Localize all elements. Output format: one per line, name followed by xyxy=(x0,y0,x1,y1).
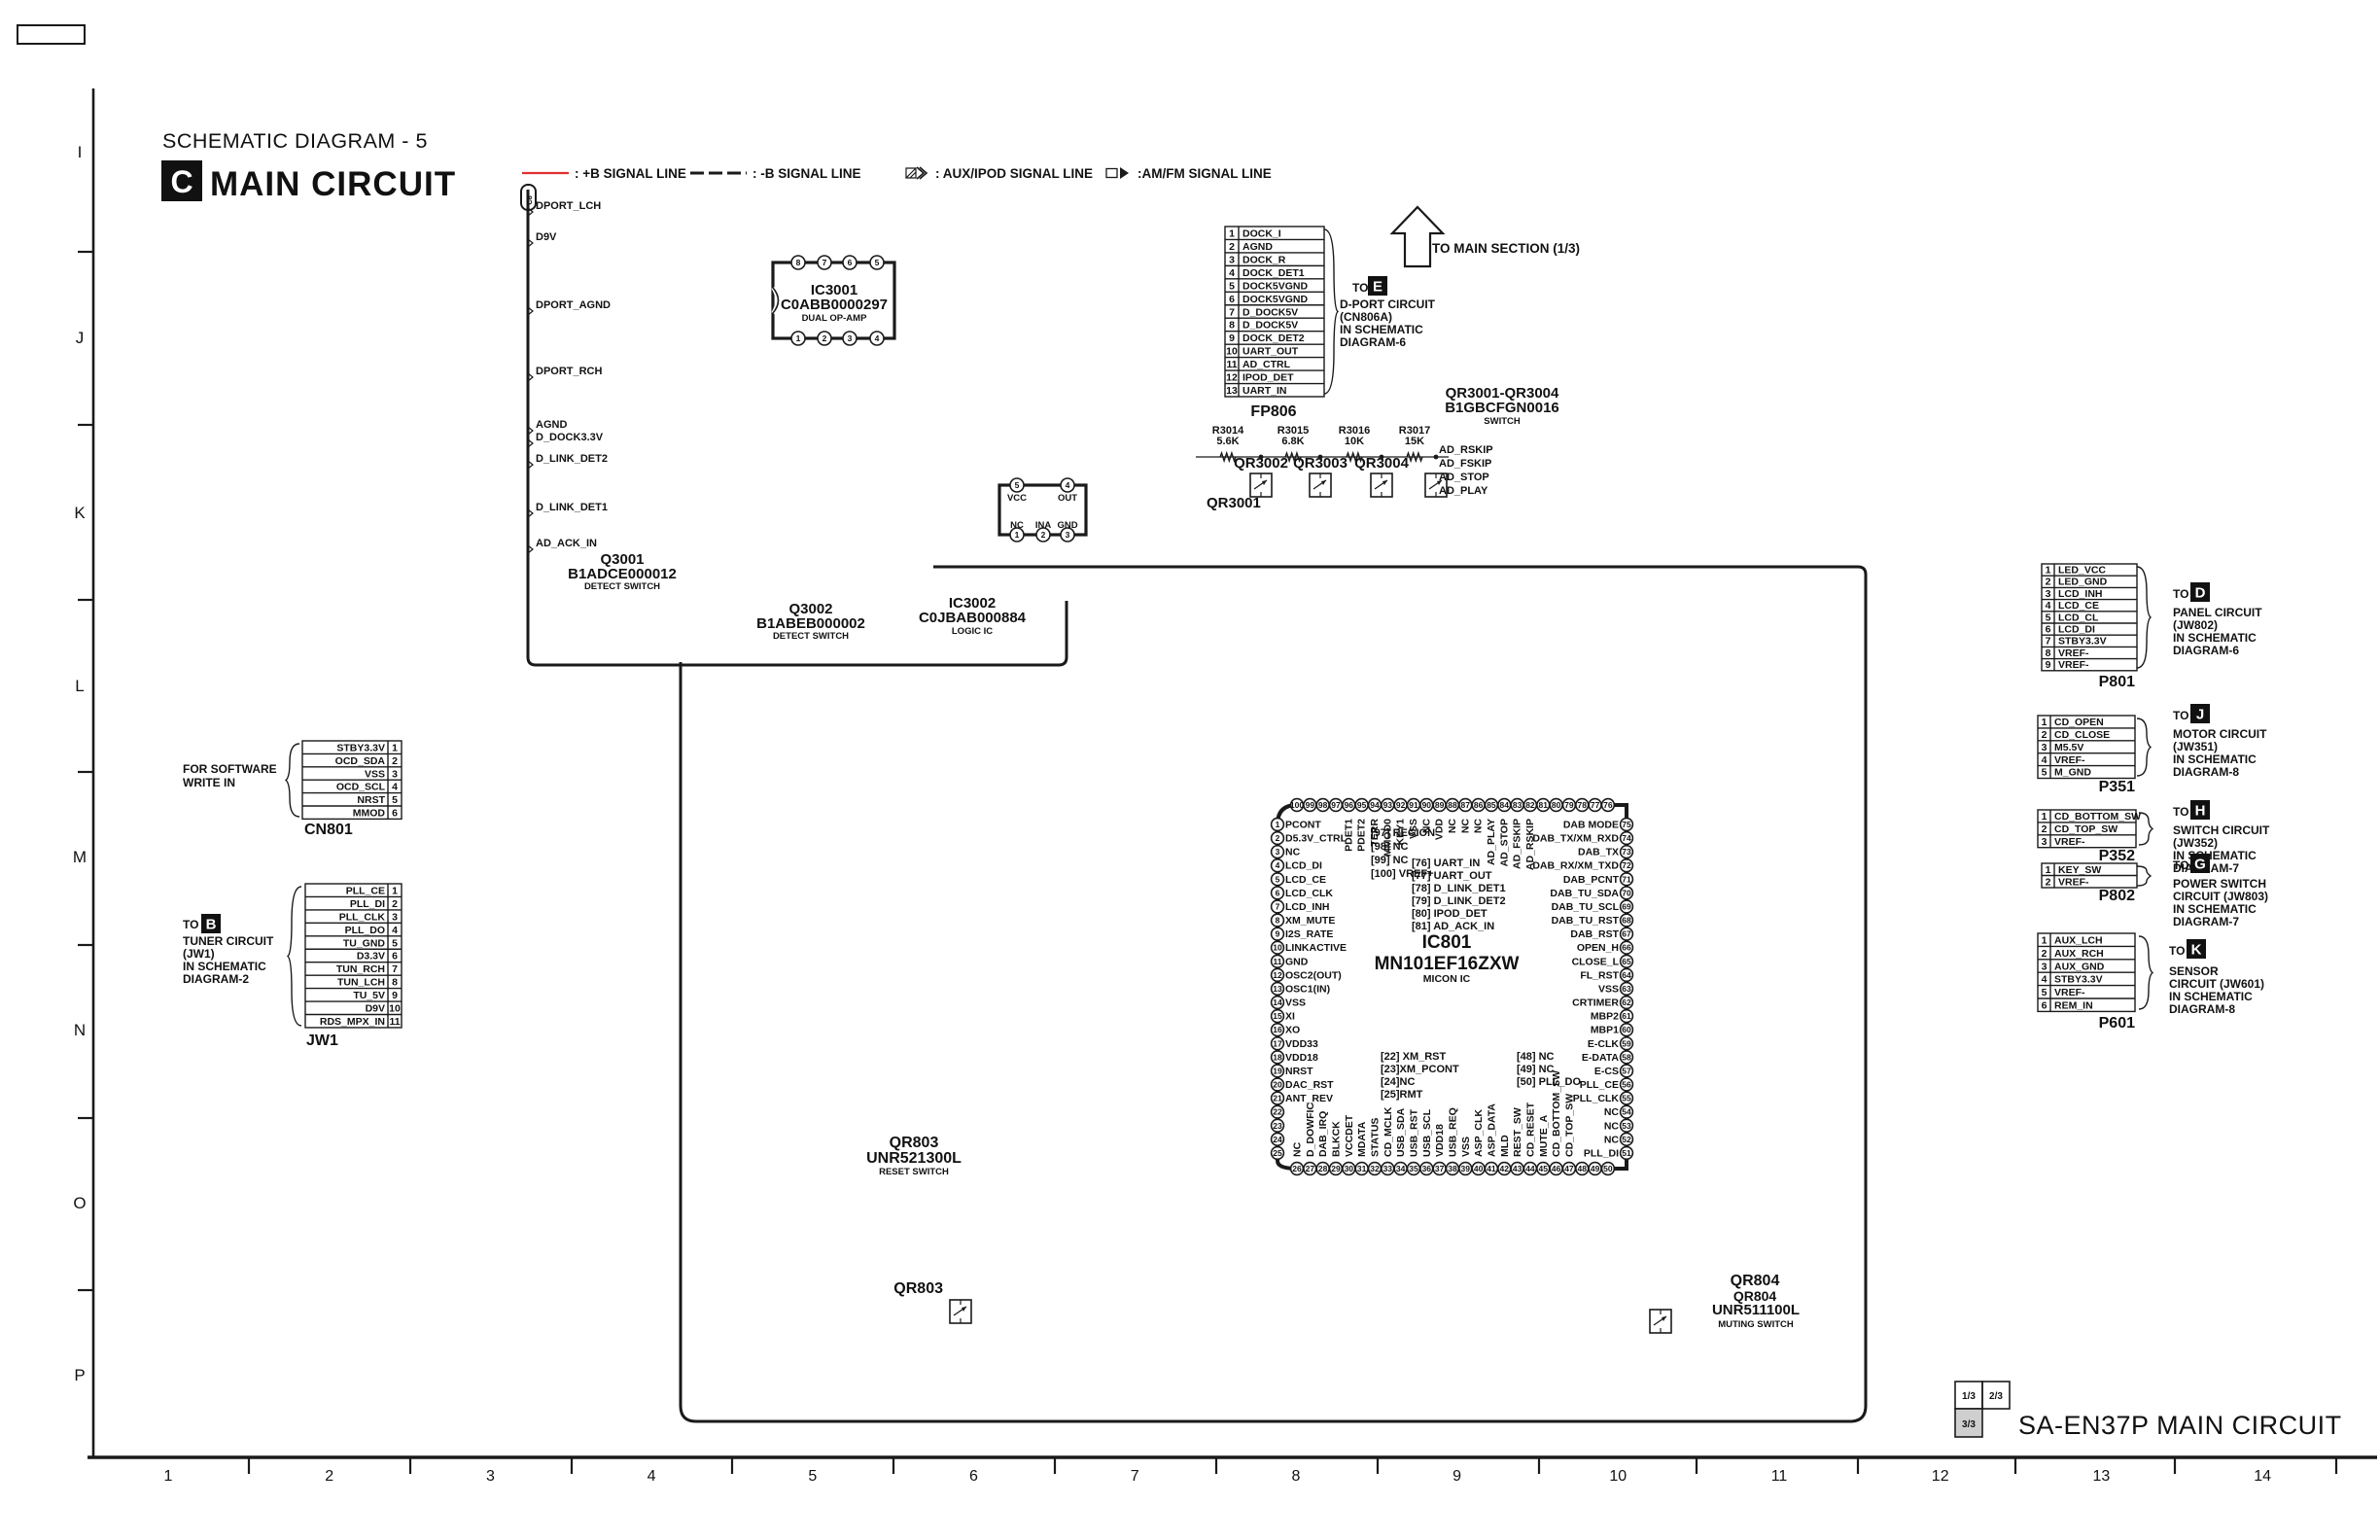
svg-text:FL_RST: FL_RST xyxy=(1580,969,1619,981)
svg-text:75: 75 xyxy=(1622,820,1631,829)
svg-text:78: 78 xyxy=(1578,800,1588,810)
svg-text:AGND: AGND xyxy=(536,419,567,431)
svg-text:98: 98 xyxy=(1318,800,1328,810)
svg-text:PCONT: PCONT xyxy=(1285,820,1321,831)
svg-text:25: 25 xyxy=(1273,1148,1282,1158)
svg-text:14: 14 xyxy=(1273,997,1282,1007)
svg-text:D-PORT CIRCUIT: D-PORT CIRCUIT xyxy=(1340,297,1436,311)
svg-text:4: 4 xyxy=(1066,480,1070,490)
svg-text:OSC1(IN): OSC1(IN) xyxy=(1285,983,1330,995)
svg-text:4: 4 xyxy=(647,1468,656,1485)
IC801 bracket pin list uart xyxy=(1412,857,1506,932)
svg-text:PLL_CE: PLL_CE xyxy=(346,885,385,896)
svg-text:: +B SIGNAL LINE: : +B SIGNAL LINE xyxy=(575,166,686,181)
svg-text:: -B SIGNAL LINE: : -B SIGNAL LINE xyxy=(752,166,861,181)
svg-text:[79] D_LINK_DET2: [79] D_LINK_DET2 xyxy=(1412,895,1506,907)
svg-text::AM/FM SIGNAL LINE: :AM/FM SIGNAL LINE xyxy=(1137,166,1272,181)
IC801 right pins 75-51 xyxy=(1532,819,1632,1160)
note to H switch circuit xyxy=(2173,800,2270,875)
svg-text:81: 81 xyxy=(1539,800,1549,810)
svg-text:99: 99 xyxy=(1306,800,1315,810)
svg-text:TUNER CIRCUIT: TUNER CIRCUIT xyxy=(183,934,274,948)
svg-text:21: 21 xyxy=(1273,1094,1282,1103)
svg-text:1: 1 xyxy=(796,333,801,343)
svg-text:E-CS: E-CS xyxy=(1594,1066,1619,1077)
svg-text:3: 3 xyxy=(2042,742,2047,753)
svg-text:45: 45 xyxy=(1539,1164,1549,1173)
svg-text:1: 1 xyxy=(1015,530,1020,540)
svg-text:[97] REGION: [97] REGION xyxy=(1371,827,1435,839)
svg-text:100: 100 xyxy=(1290,800,1304,810)
svg-text:D_DOWFIC: D_DOWFIC xyxy=(1305,1102,1316,1157)
svg-text:B1ADCE000012: B1ADCE000012 xyxy=(568,566,677,582)
page index boxes xyxy=(1955,1382,2010,1437)
svg-text:IC801: IC801 xyxy=(1422,932,1472,953)
svg-text:2: 2 xyxy=(1276,833,1280,843)
node AD_ACK_IN xyxy=(528,538,597,553)
svg-text:L: L xyxy=(75,677,84,695)
resistor R3014 xyxy=(1212,425,1244,461)
svg-text:19: 19 xyxy=(1273,1066,1282,1075)
svg-text:8: 8 xyxy=(1229,320,1235,332)
svg-text:14: 14 xyxy=(2254,1468,2271,1485)
svg-text:3: 3 xyxy=(392,911,398,923)
svg-text:[49] NC: [49] NC xyxy=(1517,1064,1555,1075)
svg-text:3/3: 3/3 xyxy=(1962,1419,1976,1430)
svg-text:STBY3.3V: STBY3.3V xyxy=(336,742,385,753)
svg-text:DOCK_DET1: DOCK_DET1 xyxy=(1242,267,1305,279)
svg-text:MLD: MLD xyxy=(1499,1135,1511,1157)
svg-text:XI: XI xyxy=(1285,1011,1295,1023)
svg-text:52: 52 xyxy=(1622,1135,1631,1144)
svg-text:15: 15 xyxy=(1273,1011,1282,1021)
svg-text:D_LINK_DET2: D_LINK_DET2 xyxy=(536,453,608,465)
svg-text:44: 44 xyxy=(1525,1164,1535,1173)
IC801 bottom pins 26-50 xyxy=(1291,1070,1615,1175)
svg-text:TU_5V: TU_5V xyxy=(353,990,385,1001)
svg-text:VSS: VSS xyxy=(1285,997,1306,1009)
svg-text:K: K xyxy=(2191,942,2202,959)
svg-text:LINKACTIVE: LINKACTIVE xyxy=(1285,942,1347,954)
node D_DOCK3.3V xyxy=(528,432,604,447)
svg-text:RDS_MPX_IN: RDS_MPX_IN xyxy=(320,1016,385,1028)
IC801 left pins 1-25 xyxy=(1272,819,1347,1160)
svg-text:2/3: 2/3 xyxy=(1989,1391,2003,1402)
note to K sensor circuit xyxy=(2169,939,2264,1016)
svg-text:TUN_RCH: TUN_RCH xyxy=(336,963,385,975)
svg-text:5: 5 xyxy=(1229,280,1235,292)
svg-text:DAB_IRQ: DAB_IRQ xyxy=(1317,1111,1329,1157)
svg-text:MDATA: MDATA xyxy=(1356,1121,1368,1157)
svg-text:NC: NC xyxy=(1010,520,1024,531)
wire switch row xyxy=(1196,455,1449,460)
svg-text:1: 1 xyxy=(2042,811,2047,822)
svg-text:SWITCH CIRCUIT: SWITCH CIRCUIT xyxy=(2173,823,2270,837)
svg-text:94: 94 xyxy=(1370,800,1380,810)
svg-text:87: 87 xyxy=(1461,800,1471,810)
svg-text:OSC2(OUT): OSC2(OUT) xyxy=(1285,969,1342,981)
svg-text:3: 3 xyxy=(2042,836,2047,848)
svg-text:53: 53 xyxy=(1622,1121,1631,1131)
svg-text:TO: TO xyxy=(2173,858,2188,872)
note to G power switch circuit xyxy=(2173,854,2268,928)
svg-text:86: 86 xyxy=(1474,800,1484,810)
svg-text:PLL_CLK: PLL_CLK xyxy=(339,911,386,923)
svg-text:5: 5 xyxy=(2046,612,2051,623)
label QR804 block xyxy=(1731,1273,1780,1304)
svg-text:AGND: AGND xyxy=(1242,241,1273,253)
svg-text:LCD_INH: LCD_INH xyxy=(2058,588,2103,600)
svg-text:LED_GND: LED_GND xyxy=(2058,577,2108,588)
svg-text:VCC: VCC xyxy=(1007,493,1027,504)
svg-text:NC: NC xyxy=(1604,1134,1620,1145)
svg-text:P351: P351 xyxy=(2099,779,2135,795)
svg-text:2: 2 xyxy=(1041,530,1046,540)
svg-text:CD_MCLK: CD_MCLK xyxy=(1382,1106,1394,1157)
svg-text:MUTING SWITCH: MUTING SWITCH xyxy=(1718,1319,1794,1330)
svg-text:1: 1 xyxy=(2046,864,2051,876)
svg-text:UNR511100L: UNR511100L xyxy=(1712,1302,1800,1318)
svg-text:DIAGRAM-7: DIAGRAM-7 xyxy=(2173,915,2239,928)
label IC3002 xyxy=(919,595,1027,637)
svg-text:33: 33 xyxy=(1383,1164,1393,1173)
svg-text:DAB_RX/XM_TXD: DAB_RX/XM_TXD xyxy=(1532,860,1619,872)
svg-text:GND: GND xyxy=(1285,956,1309,967)
connector C8 oval xyxy=(521,185,536,210)
svg-text:C: C xyxy=(170,164,192,199)
svg-text:10: 10 xyxy=(389,1003,401,1015)
svg-text:GND: GND xyxy=(1057,520,1077,531)
svg-text:[81] AD_ACK_IN: [81] AD_ACK_IN xyxy=(1412,921,1494,932)
svg-text:5: 5 xyxy=(808,1468,817,1485)
svg-text:VREF-: VREF- xyxy=(2054,754,2085,766)
svg-text:3: 3 xyxy=(1066,530,1070,540)
svg-text:D9V: D9V xyxy=(536,231,557,243)
svg-text:72: 72 xyxy=(1622,860,1631,870)
svg-text:CIRCUIT (JW803): CIRCUIT (JW803) xyxy=(2173,890,2268,903)
svg-text:(JW352): (JW352) xyxy=(2173,836,2218,850)
svg-text:24: 24 xyxy=(1273,1135,1282,1144)
svg-text:LCD_CLK: LCD_CLK xyxy=(1285,888,1333,899)
svg-text:CRTIMER: CRTIMER xyxy=(1572,997,1619,1009)
svg-text:(JW351): (JW351) xyxy=(2173,740,2218,753)
svg-text:UART_IN: UART_IN xyxy=(1242,385,1287,397)
svg-text:CD_TOP_SW: CD_TOP_SW xyxy=(1563,1094,1575,1157)
svg-text:TO: TO xyxy=(1352,281,1368,295)
svg-text:TO: TO xyxy=(183,918,198,931)
svg-text:85: 85 xyxy=(1487,800,1496,810)
svg-text:MMOD: MMOD xyxy=(353,807,386,819)
svg-text:D_DOCK5V: D_DOCK5V xyxy=(1242,306,1298,318)
switch QR3002 xyxy=(1234,455,1288,497)
svg-text:QR803: QR803 xyxy=(890,1135,939,1151)
label IC801 xyxy=(1375,932,1520,985)
svg-text:STATUS: STATUS xyxy=(1369,1118,1381,1157)
detect-switch block outline xyxy=(528,190,1067,665)
svg-text:6: 6 xyxy=(2042,999,2047,1011)
connector P352 xyxy=(2038,810,2152,864)
svg-text:[80] IPOD_DET: [80] IPOD_DET xyxy=(1412,908,1487,920)
svg-text:DOCK_I: DOCK_I xyxy=(1242,227,1281,239)
svg-text:39: 39 xyxy=(1461,1164,1471,1173)
svg-text:3: 3 xyxy=(2046,588,2051,600)
svg-text:DOCK5VGND: DOCK5VGND xyxy=(1242,280,1309,292)
svg-text:TO MAIN SECTION (1/3): TO MAIN SECTION (1/3) xyxy=(1432,241,1580,256)
svg-text:CIRCUIT (JW601): CIRCUIT (JW601) xyxy=(2169,977,2264,991)
node D9V xyxy=(528,231,557,247)
svg-text:VREF-: VREF- xyxy=(2054,987,2085,998)
svg-text:DPORT_LCH: DPORT_LCH xyxy=(536,200,601,212)
svg-text:10: 10 xyxy=(1273,943,1282,953)
svg-text:DAC_RST: DAC_RST xyxy=(1285,1079,1334,1091)
svg-text:83: 83 xyxy=(1513,800,1522,810)
svg-text:AD_CTRL: AD_CTRL xyxy=(1242,359,1291,370)
svg-text:P801: P801 xyxy=(2099,674,2135,690)
svg-text:26: 26 xyxy=(1292,1164,1302,1173)
svg-text:9: 9 xyxy=(1276,929,1280,939)
svg-text:MUTE_A: MUTE_A xyxy=(1538,1114,1550,1157)
svg-text:6: 6 xyxy=(1276,888,1280,897)
svg-text:D3.3V: D3.3V xyxy=(357,951,385,962)
svg-text:QR804: QR804 xyxy=(1731,1273,1780,1289)
svg-text:61: 61 xyxy=(1622,1011,1631,1021)
svg-text:NC: NC xyxy=(1604,1106,1620,1118)
svg-text:D5.3V_CTRL: D5.3V_CTRL xyxy=(1285,833,1347,845)
svg-text:7: 7 xyxy=(2046,636,2051,647)
svg-text:48: 48 xyxy=(1578,1164,1588,1173)
svg-text:DIAGRAM-8: DIAGRAM-8 xyxy=(2173,765,2239,779)
connector JW1 xyxy=(288,884,402,1049)
svg-text:7: 7 xyxy=(392,963,398,975)
svg-text:NC: NC xyxy=(1447,819,1458,834)
svg-text:IPOD_DET: IPOD_DET xyxy=(1242,372,1294,384)
svg-text:5: 5 xyxy=(1276,874,1280,884)
svg-text:AUX_LCH: AUX_LCH xyxy=(2054,934,2103,946)
svg-text:OCD_SCL: OCD_SCL xyxy=(336,782,386,793)
svg-text:40: 40 xyxy=(1474,1164,1484,1173)
svg-text:QR803: QR803 xyxy=(893,1280,943,1297)
svg-text:47: 47 xyxy=(1564,1164,1574,1173)
svg-text:AD_RSKIP: AD_RSKIP xyxy=(1524,819,1536,870)
svg-text:VREF-: VREF- xyxy=(2058,647,2089,659)
svg-text:DIAGRAM-8: DIAGRAM-8 xyxy=(2169,1002,2235,1016)
svg-text:I: I xyxy=(78,143,83,161)
op-amp IC3001 xyxy=(773,256,894,345)
connector CN801 xyxy=(286,741,402,838)
svg-text:OUT: OUT xyxy=(1058,493,1077,504)
switch QR803 xyxy=(893,1280,971,1323)
svg-text:SWITCH: SWITCH xyxy=(1484,416,1521,427)
svg-text:UNR521300L: UNR521300L xyxy=(866,1150,962,1167)
svg-text:38: 38 xyxy=(1448,1164,1457,1173)
svg-text:LCD_CL: LCD_CL xyxy=(2058,612,2099,623)
svg-text:PDET2: PDET2 xyxy=(1356,819,1368,852)
svg-text:RESET SWITCH: RESET SWITCH xyxy=(879,1167,949,1177)
svg-text:5: 5 xyxy=(875,258,880,267)
svg-text:2: 2 xyxy=(2046,577,2051,588)
svg-text:2: 2 xyxy=(325,1468,333,1485)
svg-text:2: 2 xyxy=(2042,729,2047,741)
svg-text:PLL_DI: PLL_DI xyxy=(350,898,385,910)
svg-text:C0ABB0000297: C0ABB0000297 xyxy=(781,297,888,313)
svg-text:AUX_GND: AUX_GND xyxy=(2054,961,2105,972)
svg-text:DAB_RST: DAB_RST xyxy=(1570,928,1619,940)
node AD_RSKIP xyxy=(1439,444,1493,456)
svg-text:3: 3 xyxy=(2042,961,2047,972)
svg-text:MOTOR CIRCUIT: MOTOR CIRCUIT xyxy=(2173,727,2267,741)
svg-text:INA: INA xyxy=(1035,520,1052,531)
svg-text:77: 77 xyxy=(1591,800,1600,810)
svg-text:QR3001: QR3001 xyxy=(1207,495,1261,511)
svg-text:[76] UART_IN: [76] UART_IN xyxy=(1412,857,1480,869)
label QR804 part xyxy=(1712,1302,1800,1330)
svg-text:: AUX/IPOD SIGNAL LINE: : AUX/IPOD SIGNAL LINE xyxy=(935,166,1093,181)
note QR3001-QR3004 switch xyxy=(1445,385,1559,427)
svg-text:AD_STOP: AD_STOP xyxy=(1498,819,1510,866)
svg-text:NRST: NRST xyxy=(1285,1066,1313,1077)
title main circuit xyxy=(210,165,456,203)
svg-text:C0JBAB000884: C0JBAB000884 xyxy=(919,610,1027,626)
svg-text:2: 2 xyxy=(392,898,398,910)
svg-text:50: 50 xyxy=(1603,1164,1613,1173)
svg-text:2: 2 xyxy=(392,755,398,767)
svg-text:MICON IC: MICON IC xyxy=(1423,973,1471,985)
svg-text:[25]RMT: [25]RMT xyxy=(1381,1089,1423,1101)
svg-text:56: 56 xyxy=(1622,1080,1631,1090)
svg-text:REST_SW: REST_SW xyxy=(1512,1107,1523,1157)
svg-text:57: 57 xyxy=(1622,1066,1631,1075)
svg-text:TO: TO xyxy=(2169,944,2185,958)
svg-text:4: 4 xyxy=(2042,974,2047,986)
svg-text:DAB MODE: DAB MODE xyxy=(1563,820,1619,831)
svg-text:AD_RSKIP: AD_RSKIP xyxy=(1439,444,1493,456)
svg-text:USB_REQ: USB_REQ xyxy=(1447,1107,1458,1157)
svg-text:3: 3 xyxy=(486,1468,495,1485)
footer title xyxy=(2018,1411,2342,1440)
svg-text:37: 37 xyxy=(1435,1164,1445,1173)
micro-controller IC801 outline xyxy=(1277,805,1627,1169)
svg-text:B: B xyxy=(206,917,217,933)
svg-text:63: 63 xyxy=(1622,984,1631,994)
svg-text:CN801: CN801 xyxy=(304,822,353,838)
svg-text:M: M xyxy=(73,848,87,866)
svg-text:PLL_CLK: PLL_CLK xyxy=(1573,1093,1620,1104)
svg-text:13: 13 xyxy=(2093,1468,2111,1485)
logic IC3002 symbol xyxy=(999,478,1086,542)
svg-text:G: G xyxy=(2194,857,2206,873)
svg-text:IN SCHEMATIC: IN SCHEMATIC xyxy=(2169,990,2253,1003)
node D_LINK_DET1 xyxy=(528,502,608,517)
svg-text:[48] NC: [48] NC xyxy=(1517,1051,1555,1063)
svg-text:15K: 15K xyxy=(1405,436,1424,447)
svg-text:84: 84 xyxy=(1500,800,1510,810)
svg-text:6: 6 xyxy=(392,807,398,819)
svg-text:96: 96 xyxy=(1345,800,1354,810)
svg-text:IN SCHEMATIC: IN SCHEMATIC xyxy=(2173,902,2257,916)
svg-text:REM_IN: REM_IN xyxy=(2054,999,2093,1011)
svg-text:8: 8 xyxy=(796,258,801,267)
svg-text:88: 88 xyxy=(1448,800,1457,810)
svg-text:41: 41 xyxy=(1487,1164,1496,1173)
svg-text:USB_RST: USB_RST xyxy=(1408,1108,1419,1157)
svg-text:VSS: VSS xyxy=(1460,1137,1472,1157)
svg-text:1: 1 xyxy=(1229,227,1235,239)
svg-text:VDD18: VDD18 xyxy=(1434,1124,1446,1157)
svg-text:35: 35 xyxy=(1409,1164,1418,1173)
svg-text:5: 5 xyxy=(392,937,398,949)
svg-text:7: 7 xyxy=(1131,1468,1139,1485)
svg-text:3: 3 xyxy=(1276,847,1280,857)
svg-text:FP806: FP806 xyxy=(1250,403,1296,420)
node DPORT_AGND xyxy=(528,299,611,315)
svg-text:VDD18: VDD18 xyxy=(1285,1052,1318,1064)
svg-text:4: 4 xyxy=(875,333,880,343)
svg-text:17: 17 xyxy=(1273,1038,1282,1048)
svg-text:LCD_DI: LCD_DI xyxy=(2058,624,2095,636)
svg-text:DAB_TU_SDA: DAB_TU_SDA xyxy=(1550,888,1619,899)
svg-text:SCHEMATIC DIAGRAM - 5: SCHEMATIC DIAGRAM - 5 xyxy=(162,129,428,153)
svg-text:4: 4 xyxy=(392,925,398,936)
svg-text:P802: P802 xyxy=(2099,888,2135,904)
svg-text:27: 27 xyxy=(1306,1164,1315,1173)
svg-text:B1ABEB000002: B1ABEB000002 xyxy=(756,615,865,632)
svg-text:E-CLK: E-CLK xyxy=(1588,1038,1619,1050)
svg-text:6: 6 xyxy=(969,1468,978,1485)
svg-text:K: K xyxy=(74,504,86,522)
svg-text:TUN_LCH: TUN_LCH xyxy=(337,977,385,989)
arrow to main section xyxy=(1392,207,1580,266)
svg-text:M5.5V: M5.5V xyxy=(2054,742,2083,753)
svg-text:2: 2 xyxy=(822,333,827,343)
svg-text:4: 4 xyxy=(2046,600,2051,612)
svg-text:VREF-: VREF- xyxy=(2058,876,2089,888)
svg-text:54: 54 xyxy=(1622,1107,1631,1117)
svg-text:8: 8 xyxy=(2046,647,2051,659)
svg-text:12: 12 xyxy=(1273,970,1282,980)
svg-text:POWER SWITCH: POWER SWITCH xyxy=(2173,877,2266,891)
svg-text:[50] PLL_DO: [50] PLL_DO xyxy=(1517,1076,1581,1088)
svg-text:59: 59 xyxy=(1622,1038,1631,1048)
node D_LINK_DET2 xyxy=(528,453,608,469)
svg-text:IN SCHEMATIC: IN SCHEMATIC xyxy=(183,960,266,973)
page frame bottom axis xyxy=(87,1457,2377,1485)
svg-text:IN SCHEMATIC: IN SCHEMATIC xyxy=(1340,323,1423,336)
svg-text:B1GBCFGN0016: B1GBCFGN0016 xyxy=(1445,400,1559,416)
svg-text:AD_FSKIP: AD_FSKIP xyxy=(1439,458,1491,470)
svg-text:AD_ACK_IN: AD_ACK_IN xyxy=(536,538,597,549)
svg-text:KEY_SW: KEY_SW xyxy=(2058,864,2101,876)
svg-text:5.6K: 5.6K xyxy=(1216,436,1239,447)
svg-text:58: 58 xyxy=(1622,1052,1631,1062)
svg-text:29: 29 xyxy=(1331,1164,1341,1173)
svg-text:66: 66 xyxy=(1622,943,1631,953)
svg-text:11: 11 xyxy=(1274,957,1282,966)
svg-text:91: 91 xyxy=(1409,800,1418,810)
svg-text:CD_BOTTOM_SW: CD_BOTTOM_SW xyxy=(2054,811,2141,822)
svg-text:2: 2 xyxy=(2046,876,2051,888)
svg-text:AD_FSKIP: AD_FSKIP xyxy=(1512,819,1523,869)
svg-text:6: 6 xyxy=(392,951,398,962)
svg-text:VDD: VDD xyxy=(1434,819,1446,841)
node DPORT_LCH xyxy=(528,200,601,216)
svg-text:67: 67 xyxy=(1622,929,1631,939)
svg-text:CD_RESET: CD_RESET xyxy=(1524,1102,1536,1157)
svg-text:18: 18 xyxy=(1273,1052,1282,1062)
svg-text:13: 13 xyxy=(1226,385,1238,397)
switch QR3003 xyxy=(1293,455,1347,497)
svg-text:E-DATA: E-DATA xyxy=(1582,1052,1620,1064)
svg-text:M_GND: M_GND xyxy=(2054,767,2091,779)
